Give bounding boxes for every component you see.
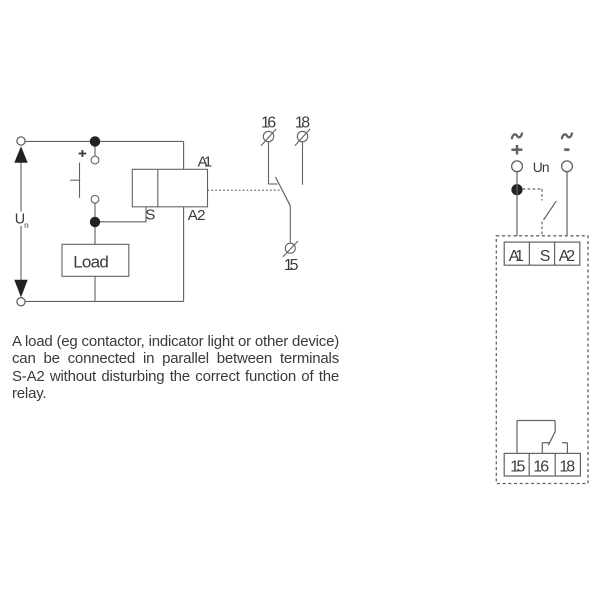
svg-text:16: 16	[261, 115, 276, 132]
svg-text:Load: Load	[73, 252, 109, 271]
svg-text:Un: Un	[533, 160, 550, 175]
svg-text:A1: A1	[198, 153, 213, 170]
svg-text:A1: A1	[509, 248, 524, 265]
svg-text:S: S	[145, 207, 155, 224]
svg-text:15: 15	[284, 257, 299, 274]
svg-text:n: n	[24, 221, 29, 230]
svg-text:15: 15	[510, 459, 525, 476]
svg-text:S: S	[540, 248, 551, 265]
svg-text:18: 18	[295, 115, 310, 132]
svg-text:A2: A2	[559, 248, 575, 265]
svg-text:18: 18	[559, 459, 575, 476]
svg-text:16: 16	[533, 459, 549, 476]
svg-text:A2: A2	[188, 207, 206, 224]
